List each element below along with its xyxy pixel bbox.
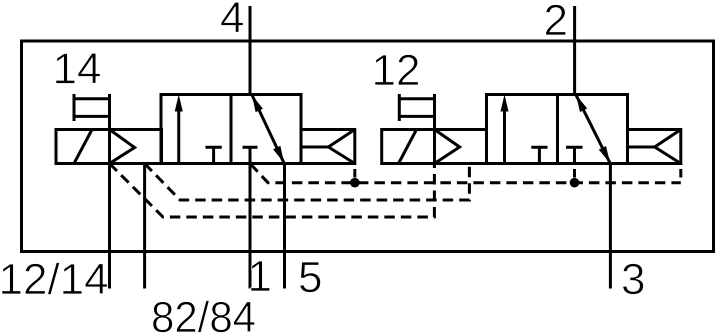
svg-text:4: 4: [220, 0, 244, 43]
pipe port 3: [609, 164, 612, 289]
valve V1 body (two position squares): [161, 95, 301, 164]
junction dot V2 pilot: [570, 178, 580, 188]
solenoid/pilot divider line V2: [433, 94, 436, 164]
pilot line 14 (dashed, lower): [110, 164, 435, 218]
pilot box right V2: [628, 130, 681, 164]
solenoid/pilot divider line: [108, 94, 111, 164]
svg-text:14: 14: [53, 45, 102, 94]
solenoid Y1 box: [56, 130, 110, 164]
flow arrow V1 left square: [177, 109, 180, 164]
pilot triangle left V1: [110, 130, 135, 164]
blocked port T V1 left square: [206, 146, 222, 149]
blocked port T V2 right square: [566, 146, 583, 149]
arrowhead V1 up arrow: [175, 95, 183, 112]
solenoid Y2 box: [382, 130, 435, 164]
frame border: [22, 41, 714, 252]
pilot supply line from port 1 (dashed, upper): [251, 164, 681, 183]
pilot triangle right V1: [328, 130, 354, 164]
junction dot V1 pilot: [350, 178, 360, 188]
svg-text:2: 2: [544, 0, 568, 45]
pilot line 84 (dashed, middle): [145, 164, 470, 201]
pilot box left V1: [110, 130, 162, 164]
pilot triangle right V2: [655, 130, 681, 164]
flow double arrow V2 right square: [576, 95, 610, 163]
pipe port 5: [283, 164, 286, 289]
blocked port T V1 right square: [243, 146, 258, 149]
arrowhead V2 diag bottom: [599, 146, 610, 163]
svg-text:12/14: 12/14: [0, 255, 109, 304]
pilot line end stub V2 right pilot: [679, 164, 682, 183]
svg-text:1: 1: [248, 252, 272, 301]
pilot branch to V2 supply port: [573, 164, 576, 183]
solenoid Y2 diagonal: [399, 130, 417, 164]
flow arrow V2 left square: [503, 109, 506, 164]
svg-text:3: 3: [621, 255, 645, 304]
arrowhead V1 diag top: [252, 95, 263, 112]
pipe port 82/84: [143, 164, 146, 289]
pilot triangle left V2: [435, 130, 460, 164]
pilot branch to V1 right pilot: [353, 164, 356, 183]
arrowhead V2 up arrow: [501, 95, 509, 112]
pilot symbol 12 upper rectangle: [399, 97, 434, 100]
pilot symbol 14 upper rectangle: [74, 97, 110, 100]
svg-text:5: 5: [298, 253, 322, 302]
flow double arrow V1 right square: [252, 95, 284, 163]
valve V2 body (two position squares): [487, 95, 628, 164]
arrowhead V2 diag top: [576, 95, 587, 112]
valve V2 position divider: [556, 95, 559, 164]
pilot box left V2: [435, 130, 487, 164]
valve V1 position divider: [230, 95, 233, 164]
pipe port 1: [249, 164, 252, 289]
pipe port 4: [249, 6, 252, 95]
arrowhead V1 diag bottom: [273, 146, 284, 163]
svg-text:12: 12: [372, 46, 421, 95]
svg-text:82/84: 82/84: [151, 293, 256, 336]
pipe port 2: [573, 6, 576, 95]
solenoid Y1 diagonal: [74, 130, 92, 164]
pipe port 12/14: [108, 164, 111, 289]
blocked port T V2 left square: [531, 146, 547, 149]
pilot box right V1: [301, 130, 355, 164]
